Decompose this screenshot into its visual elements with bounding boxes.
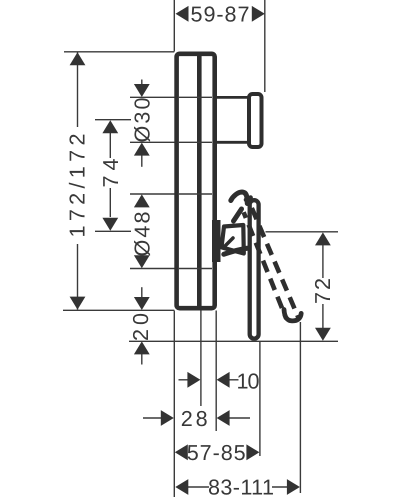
svg-text:72: 72 [310, 278, 335, 304]
svg-text:57-85: 57-85 [187, 440, 246, 465]
svg-text:Ø30: Ø30 [130, 98, 155, 143]
svg-text:59-87: 59-87 [191, 1, 250, 26]
svg-text:10: 10 [237, 369, 260, 394]
svg-text:83-111: 83-111 [208, 475, 274, 500]
svg-text:Ø48: Ø48 [130, 212, 155, 257]
